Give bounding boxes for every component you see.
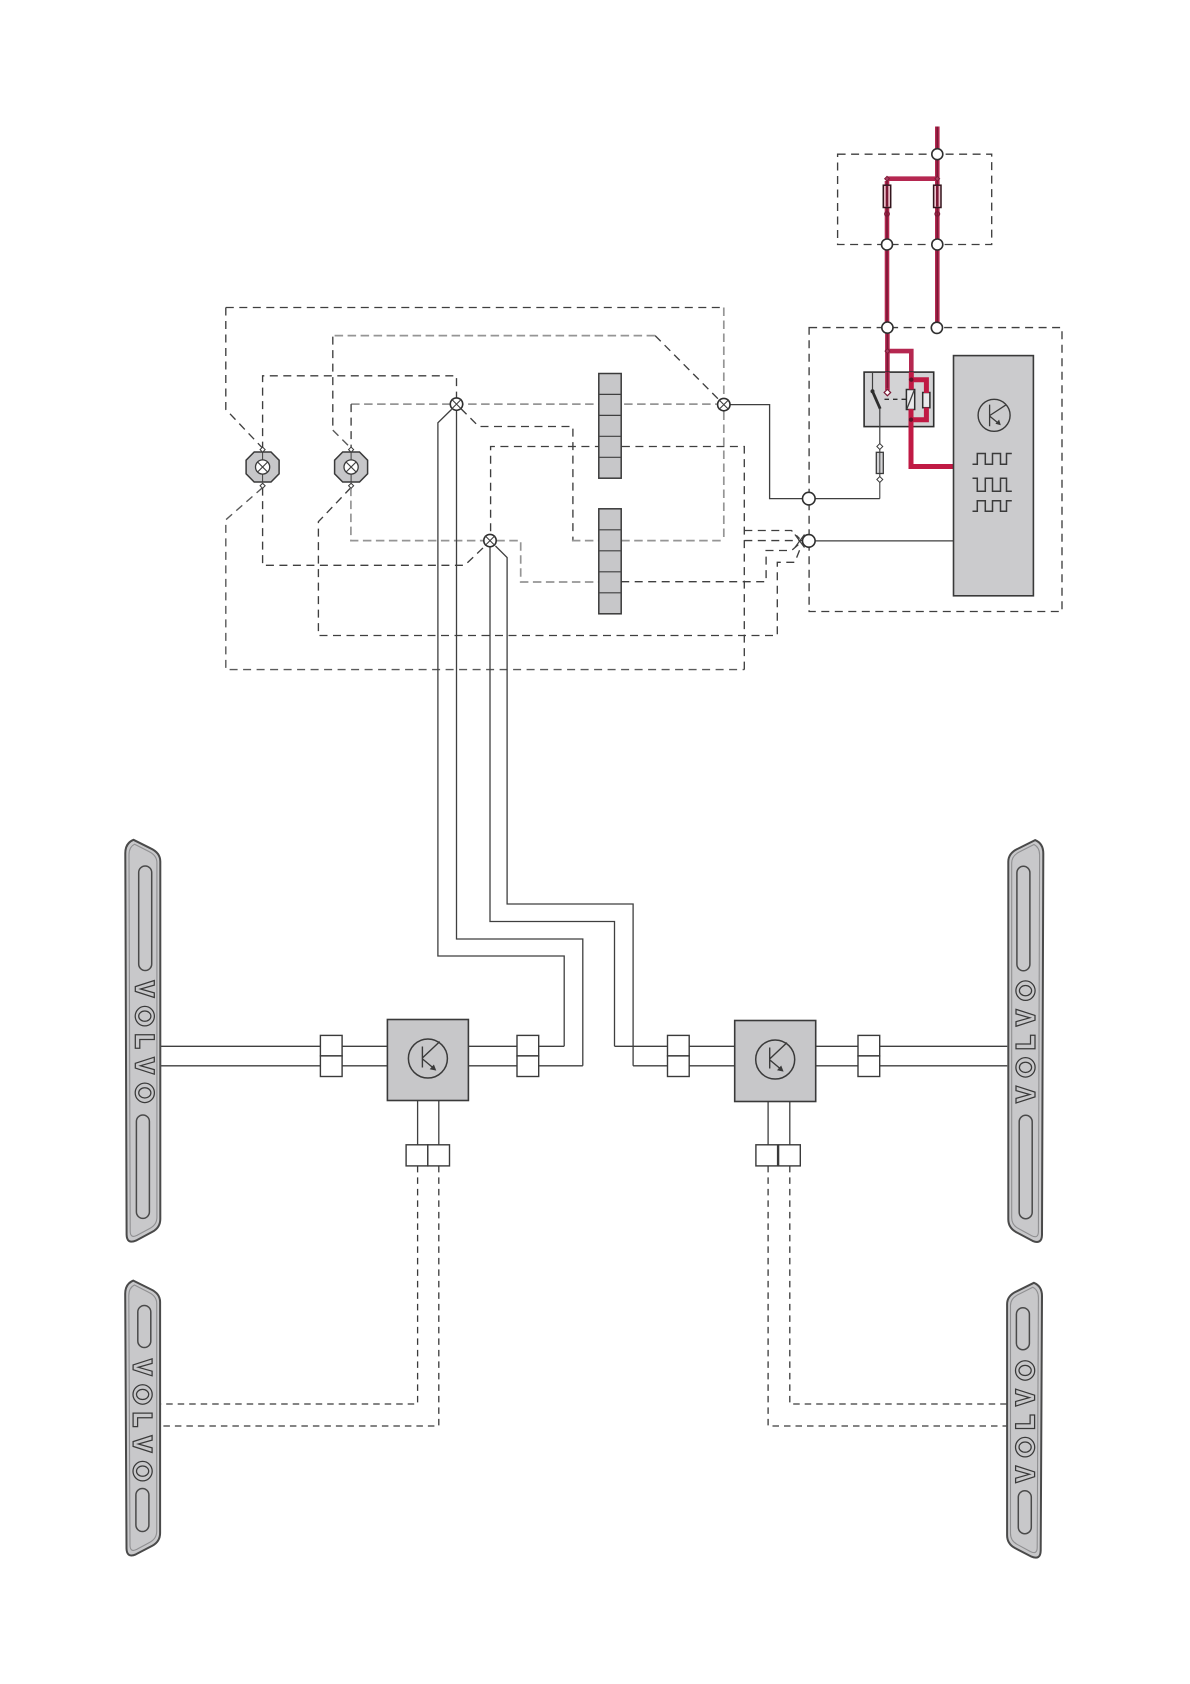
wire dashed: diagonal light box edge to lamp E2 top — [333, 430, 351, 448]
wire red thick: relay coil loop — [911, 379, 926, 420]
wire dashed: left module to bottom-left sill plate (2) — [161, 1166, 439, 1426]
wire dashed: lower strip pin4 right, up, to node X — [621, 544, 799, 582]
wire: right module bottom pair — [768, 1102, 790, 1145]
wire: splice S1 straight down wire B — [457, 410, 583, 1066]
node X arrow at C2 — [795, 535, 805, 548]
dashed harness box top edge (outer box) — [226, 307, 724, 309]
junction dots on coil loop — [909, 378, 913, 382]
wire dashed: left module to bottom-left sill plate (1) — [161, 1166, 418, 1404]
fuse box dashed boundary — [838, 154, 992, 244]
lamp E1 (octagon bulb) — [246, 447, 279, 488]
lower connector strip — [599, 509, 621, 614]
relay K1 — [864, 372, 934, 445]
wire red: branch to relay coil — [887, 351, 911, 389]
upper connector strip — [599, 374, 621, 479]
wire dashed: right module to bottom-right sill plate (2) — [768, 1166, 1007, 1426]
junction diamonds at fuse feed — [885, 176, 890, 181]
wire: splice S3 to connector circle C1 — [730, 405, 803, 499]
junction dots below fuses — [885, 212, 890, 217]
wire: right module to right sill plate lower — [816, 1065, 1008, 1067]
wire dashed: splice S1 diagonal to connector strip row (y426.5) down to lower strip pin 2 — [461, 409, 573, 541]
red core lines — [887, 127, 937, 389]
wire: right module left upper — [615, 1045, 735, 1047]
inline connector left module right — [517, 1035, 539, 1076]
sill plate upper-right — [1008, 840, 1043, 1242]
wire: splice S2 down-right wire D — [496, 546, 634, 1066]
wire: connector circle C2 to control unit — [815, 540, 954, 542]
wire dashed: outer box left edge to lamp E1 top — [226, 308, 263, 449]
wire dashed: branch y530.5 to node X — [744, 531, 799, 539]
wire dashed: above lamp E2 vertical — [350, 404, 352, 448]
control unit U1 — [954, 356, 1034, 596]
connector circles top of control module box — [882, 322, 893, 333]
wire dashed: lamp E1 bottom to outer box bottom edge and right side — [226, 488, 745, 670]
splice S1 — [450, 398, 462, 410]
wire: left module bottom pair — [418, 1101, 439, 1145]
wire: left sill plate to left module lower — [161, 1065, 387, 1067]
left door module M1 — [387, 1020, 468, 1101]
wire dashed: diagonal light box corner to splice S3 — [655, 336, 724, 405]
connector circle top of fuse box — [932, 149, 943, 160]
wire red thick: relay to control unit — [911, 418, 954, 467]
inline connector left module bottom — [406, 1145, 449, 1166]
wire dashed: lamp E1 bottom down, right, diagonal up to splice S2 — [263, 488, 485, 566]
control module dashed boundary — [809, 328, 1062, 612]
connector circle C2 — [803, 535, 816, 548]
wire dashed: right side up, across y446.5, down to splice S2 — [491, 447, 745, 670]
wire: right module to right sill plate upper — [816, 1045, 1008, 1047]
wire dashed light: lamp E2 bottom to splice S2 — [351, 488, 484, 541]
wire: fuse F3 to connector circle C1 — [815, 498, 880, 500]
connector circle C1 — [803, 492, 816, 505]
sill plate lower-right — [1007, 1283, 1042, 1558]
splice S3 — [718, 398, 730, 410]
lamp E2 (octagon bulb) — [335, 447, 368, 488]
junction diamond red branch — [885, 349, 890, 354]
fuse F1 — [883, 185, 890, 207]
sill plate upper-left — [125, 840, 160, 1242]
wire: right module left lower — [633, 1065, 735, 1067]
wire red: battery feed stub into fuse box — [935, 127, 940, 150]
wire dashed: lamp E1 top to splice S1 via box edge — [263, 376, 457, 450]
wire red: feed to fuse F2 — [935, 160, 940, 239]
wire red: from connector to relay switch terminal — [885, 333, 890, 390]
wire: splice S2 straight down wire C — [490, 547, 615, 1047]
inline connector right module bottom — [756, 1145, 800, 1166]
inline connector right module right — [858, 1035, 880, 1076]
wire dashed: right module to bottom-right sill plate (1) — [790, 1166, 1007, 1404]
connector circles bottom of fuse box — [882, 239, 893, 250]
dashed harness box (light) top and left edge — [334, 335, 655, 337]
wire: left sill plate to left module upper — [161, 1045, 387, 1047]
inline connector right module left — [668, 1035, 690, 1076]
inline connector left module left — [320, 1035, 342, 1076]
wire dashed light: splice S3 vertical harness edge — [723, 308, 725, 540]
wire dashed: lower strip pin2 right to connector circle C2 — [621, 540, 724, 542]
fuse F3 below relay — [876, 444, 883, 499]
wire red: fuse box outputs down to control module connectors — [887, 250, 937, 322]
right door module M2 — [735, 1021, 816, 1102]
splice S2 — [484, 534, 496, 546]
sill plate lower-left — [125, 1281, 160, 1556]
wire: left module right lower — [468, 1065, 582, 1067]
fuse F2 — [934, 185, 941, 207]
wire red: branch to fuse F1 — [887, 179, 937, 240]
wire dashed: lamp E2 bottom down-left, down, right, up, to node X — [318, 488, 801, 636]
wire dashed light: y404 from above lamp E2 through splice S1 and upper strip to splice S3 — [351, 403, 718, 405]
wire: splice S1 down-left to door module wire A — [438, 409, 564, 1046]
wire: left module right upper — [468, 1045, 564, 1047]
wire dashed light: splice S2 right, down, to lower strip pin 4 — [496, 541, 599, 582]
